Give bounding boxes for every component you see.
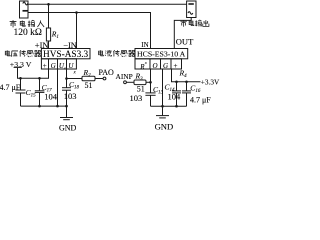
svg-text:104: 104 — [44, 92, 58, 102]
wire mains line2 — [28, 13, 151, 49]
wire OUT pin — [174, 18, 191, 49]
AC load box (mains output) — [187, 1, 196, 18]
svg-text:120 kΩ: 120 kΩ — [14, 28, 42, 38]
svg-text:104: 104 — [168, 92, 182, 102]
capacitor C14 — [172, 82, 181, 106]
svg-text:51: 51 — [85, 81, 93, 90]
wire pin + right down and rail — [172, 69, 201, 82]
svg-text:x: x — [144, 60, 147, 65]
svg-text:−IN: −IN — [63, 40, 77, 50]
gnd rail right — [151, 105, 187, 107]
capacitor C16 — [182, 82, 191, 106]
terminal AINP — [124, 81, 127, 84]
node junction C17 — [38, 77, 41, 80]
pin row HVS — [41, 59, 76, 69]
svg-text:+3.3V: +3.3V — [201, 78, 220, 87]
capacitor C13 — [145, 82, 155, 106]
svg-text:HCS-ES3-10 A: HCS-ES3-10 A — [137, 50, 186, 59]
resistor R2 — [82, 76, 95, 81]
AC source box (mains input) — [20, 1, 29, 18]
wire R3 to O node — [146, 81, 151, 83]
wire R1 top — [48, 4, 50, 28]
terminal PAO — [103, 77, 106, 80]
svg-text:OUT: OUT — [176, 36, 194, 46]
power +3.3V left underline — [14, 66, 22, 68]
svg-text:GND: GND — [155, 122, 174, 132]
voltage sensor U1 HVS-AS3.3 body — [41, 49, 90, 59]
ground symbol right — [156, 106, 169, 118]
resistor R3 — [134, 80, 146, 85]
svg-text:+3.3 V: +3.3 V — [10, 60, 32, 69]
svg-text:+: + — [43, 62, 47, 70]
resistor R1 — [46, 28, 50, 41]
svg-text:G: G — [163, 62, 168, 70]
svg-text:O: O — [153, 62, 158, 70]
label mains input — [10, 20, 44, 27]
label mains output — [180, 20, 208, 27]
wire pin + down to rail — [18, 68, 49, 78]
label current sensor — [99, 50, 135, 57]
svg-text:GND: GND — [59, 123, 77, 132]
wire -IN — [76, 13, 78, 49]
node junction C16 — [185, 81, 188, 84]
wire AINP to R3 — [126, 81, 134, 83]
ground symbol left — [60, 106, 73, 120]
wire Uo node to R2 — [67, 78, 83, 80]
wire R1 bottom to +IN — [48, 41, 50, 49]
svg-text:PAO: PAO — [99, 68, 114, 77]
capacitor C17 — [35, 78, 45, 106]
wire pin Uo down — [66, 69, 68, 88]
svg-text:HVS-AS3.3: HVS-AS3.3 — [43, 50, 89, 60]
svg-text:4.7 μF: 4.7 μF — [190, 96, 211, 105]
node junction -IN tap — [75, 11, 78, 14]
gnd rail left — [21, 105, 67, 107]
wire pin G right down — [162, 69, 164, 106]
svg-text:4.7 μF: 4.7 μF — [0, 83, 21, 92]
node junction C15 — [19, 77, 22, 80]
wire O pin down — [150, 69, 152, 82]
svg-text:AINP: AINP — [116, 72, 133, 81]
wire pin G down to gnd rail — [57, 69, 59, 106]
node junction R1 tap — [47, 3, 50, 6]
node junction gnd G — [56, 105, 59, 108]
svg-text:+IN: +IN — [35, 40, 49, 50]
current sensor U2 HCS-ES3-10A body — [135, 49, 188, 59]
wire IN label line2 end — [150, 12, 152, 14]
svg-text:G: G — [51, 62, 56, 70]
node junction gnd C14 — [175, 105, 178, 108]
label voltage sensor — [5, 50, 41, 57]
svg-text:+: + — [174, 62, 178, 70]
node junction C14 — [175, 81, 178, 84]
svg-text:103: 103 — [64, 91, 77, 101]
pin row HCS — [135, 59, 182, 69]
node junction O pin — [149, 81, 152, 84]
node junction gnd G right — [161, 105, 164, 108]
node junction PAO branch — [65, 77, 68, 80]
svg-text:103: 103 — [130, 93, 143, 103]
node junction gnd stem — [65, 105, 68, 108]
wire R2 to PAO — [95, 78, 103, 80]
wire mains line1 top — [28, 3, 187, 5]
capacitor C18 — [62, 88, 71, 106]
capacitor C15 — [16, 78, 26, 106]
svg-text:IN: IN — [141, 41, 148, 49]
node junction gnd C17 — [38, 105, 41, 108]
